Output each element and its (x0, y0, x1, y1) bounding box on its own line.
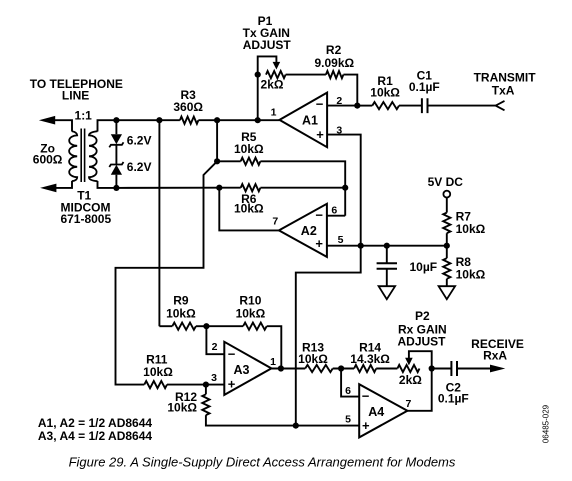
resistor R13 10kΩ (305, 365, 333, 372)
svg-text:LINE: LINE (62, 89, 89, 103)
label R14 (359, 340, 381, 354)
svg-text:7: 7 (272, 216, 278, 228)
wire: 10µF to ground (386, 269, 388, 286)
pin 3 label (A3) (211, 372, 217, 384)
label R8 (456, 255, 472, 269)
svg-text:5V DC: 5V DC (428, 175, 464, 189)
op-amp A1 (280, 93, 328, 148)
potentiometer P1 2kΩ (266, 71, 286, 78)
resistor R6 10kΩ (241, 184, 261, 191)
label RECEIVE (471, 337, 524, 351)
junction: R6 right node (342, 185, 348, 191)
svg-text:A3: A3 (234, 363, 250, 377)
svg-text:A1, A2 = 1/2 AD8644: A1, A2 = 1/2 AD8644 (38, 416, 153, 430)
wire: telephone line upper lead (55, 120, 73, 131)
A3 plus sign (228, 377, 236, 392)
label 360Ω (173, 100, 203, 114)
resistor R11 10kΩ (144, 381, 167, 388)
label TxA (492, 83, 515, 97)
svg-text:10kΩ: 10kΩ (143, 365, 173, 379)
wire: R9 left lead (159, 325, 172, 327)
wire: A1 pin2 stub (327, 105, 357, 107)
label RxA (483, 348, 507, 362)
resistor R8 10kΩ (443, 258, 450, 279)
transformer T1 secondary winding (89, 131, 98, 181)
svg-text:0.1µF: 0.1µF (438, 391, 469, 405)
label R3 (181, 88, 197, 102)
wire: node to R1 (357, 105, 372, 107)
svg-text:+: + (228, 377, 236, 392)
wire: top rail left segment (116, 119, 179, 121)
P2 wiper arrow (405, 358, 413, 366)
wire: R2 to A1 inverting node (343, 75, 357, 106)
label Rx GAIN (398, 323, 447, 337)
label 1:1 (75, 108, 93, 122)
label 10kΩ (R10) (236, 307, 266, 321)
junction: A3 pin3 node (203, 382, 209, 388)
svg-text:TxA: TxA (492, 83, 515, 97)
label 10kΩ (R7) (456, 222, 486, 236)
svg-text:1: 1 (270, 356, 276, 368)
wire: R11 to pin3 node (167, 384, 224, 386)
wire: A1 pin3 stub down to A2 pin5 node (327, 135, 361, 246)
label A1 (302, 113, 318, 127)
label TO TELEPHONE LINE (30, 77, 123, 103)
wire: A2 output to R6 left node (219, 188, 279, 231)
A4 plus sign (362, 418, 370, 433)
svg-text:2: 2 (212, 341, 218, 353)
svg-text:+: + (316, 127, 324, 142)
label A4 (368, 405, 384, 419)
capacitor C2 0.1µF (451, 361, 457, 376)
pin 2 label (336, 95, 342, 107)
svg-text:6: 6 (345, 385, 351, 397)
svg-text:+: + (315, 236, 323, 251)
label 10kΩ (R6) (234, 202, 264, 216)
svg-text:A3, A4 = 1/2 AD8644: A3, A4 = 1/2 AD8644 (38, 429, 153, 443)
capacitor C1 0.1µF (422, 98, 428, 113)
label A2 (301, 224, 317, 238)
label 10kΩ (R12) (167, 401, 197, 415)
wire: top rail to R9 (long vertical) (158, 120, 160, 326)
svg-text:671-8005: 671-8005 (60, 212, 111, 226)
A2 plus sign (315, 236, 323, 251)
label 671-8005 (60, 212, 111, 226)
svg-text:10kΩ: 10kΩ (236, 307, 266, 321)
junction: R6 left node (216, 185, 222, 191)
label T1 (77, 189, 91, 203)
junction: R9 tap on top rail (156, 117, 162, 123)
pin 3 label (336, 124, 342, 136)
TxA connector chevron (496, 101, 505, 110)
label R9 (173, 294, 189, 308)
wire: R5 left lead (217, 160, 241, 162)
svg-text:600Ω: 600Ω (33, 153, 63, 167)
junction: P1 left terminal (255, 72, 261, 78)
label C1 (417, 69, 433, 83)
junction: zener top on rail (113, 117, 119, 123)
wire: pin6 node down to A4 (341, 369, 359, 397)
wire: junction to R10 (206, 325, 243, 327)
label Zo 600Ω (33, 142, 63, 167)
label R5 (241, 130, 257, 144)
potentiometer P2 2kΩ (397, 365, 419, 372)
wire: R14 to P2 (376, 368, 397, 370)
svg-text:1: 1 (271, 107, 277, 119)
svg-text:5: 5 (338, 234, 344, 246)
svg-text:10kΩ: 10kΩ (456, 222, 486, 236)
resistor R12 10kΩ (202, 394, 209, 415)
label 10kΩ (R13) (298, 352, 328, 366)
svg-text:14.3kΩ: 14.3kΩ (350, 352, 390, 366)
label R11 (146, 353, 168, 367)
label TRANSMIT (474, 71, 537, 85)
wire: 5V to R7 (446, 198, 448, 213)
pin 6 label (A4) (345, 385, 351, 397)
label 9.09kΩ (314, 56, 354, 70)
junction: R13/R14/A4 pin6 node (338, 365, 344, 371)
junction: R5 left node (214, 158, 220, 164)
wire: R5 node diagonal jog to R11 (116, 161, 218, 384)
resistor R9 10kΩ (172, 323, 196, 330)
wire: between zeners (115, 145, 117, 165)
zener diode upper 6.2V (cathode down) (109, 134, 123, 147)
junction: pin5 / A1 pin3 node (358, 243, 364, 249)
resistor R2 9.09kΩ (326, 71, 344, 78)
A1 minus sign (316, 97, 324, 112)
wire: C2 to RxA arrow (457, 368, 493, 370)
wire: R10 right lead down to A3 output (267, 326, 282, 368)
svg-text:R10: R10 (239, 294, 261, 308)
label ADJUST (397, 334, 446, 348)
ground below 10µF (379, 286, 396, 299)
wire: top rail right segment (198, 119, 279, 121)
label R6 (241, 192, 257, 206)
wire: P1 to R2 (286, 74, 326, 76)
svg-text:−: − (362, 389, 370, 404)
junction: 10µF tap (384, 243, 390, 249)
junction: A3 output node (278, 365, 284, 371)
label P1 (258, 14, 273, 28)
svg-text:6.2V: 6.2V (127, 160, 152, 174)
svg-text:−: − (315, 207, 323, 222)
label P2 (415, 309, 430, 323)
pin 6 label (331, 205, 337, 217)
label ADJUST (243, 38, 292, 52)
label 10kΩ (R11) (143, 365, 173, 379)
svg-text:10kΩ: 10kΩ (234, 202, 264, 216)
svg-text:2kΩ: 2kΩ (261, 77, 284, 91)
pin 1 label (271, 107, 277, 119)
wire: zener branch top (115, 120, 117, 134)
wire: R5 right lead down (260, 161, 345, 215)
junction: A4 plus line tap (293, 423, 299, 429)
A4 minus sign (362, 389, 370, 404)
pin 5 label (A4) (345, 413, 351, 425)
label 0.1µF (C2) (438, 391, 469, 405)
resistor R10 10kΩ (243, 323, 267, 330)
label 10kΩ (R9) (166, 307, 196, 321)
A1 plus sign (316, 127, 324, 142)
label 10kΩ (R8) (456, 268, 486, 282)
label 0.1µF (C1) (409, 80, 440, 94)
label 6.2V (lower) (127, 160, 152, 174)
label 5V DC (428, 175, 464, 189)
label 6.2V (upper) (127, 134, 152, 148)
note A3 A4 (38, 429, 153, 443)
label R2 (326, 43, 342, 57)
svg-text:9.09kΩ: 9.09kΩ (314, 56, 354, 70)
svg-text:R2: R2 (326, 43, 342, 57)
note A1 A2 (38, 416, 153, 430)
resistor R3 360Ω (180, 117, 199, 124)
junction: zener bottom on rail (113, 185, 119, 191)
svg-text:−: − (228, 346, 236, 361)
label R7 (456, 210, 472, 224)
svg-text:10kΩ: 10kΩ (234, 142, 264, 156)
label R1 (377, 74, 393, 88)
junction: P1 tap / A1 output node (255, 117, 261, 123)
pin 2 label (A3) (212, 341, 218, 353)
capacitor 10µF (377, 263, 397, 269)
svg-text:Figure 29. A Single-Supply Dir: Figure 29. A Single-Supply Direct Access… (69, 455, 456, 470)
wire: C1 to TxA connector (428, 105, 496, 107)
zener diode lower 6.2V (cathode up) (109, 162, 123, 175)
svg-text:3: 3 (211, 372, 217, 384)
svg-text:A1: A1 (302, 113, 318, 127)
wire: P2 wiper tie (409, 351, 432, 368)
label R12 (175, 390, 197, 404)
wire: A2 pin6 stub (327, 215, 345, 217)
wire: P1 wiper tie (258, 56, 277, 74)
junction: R7/R8 divider node (444, 243, 450, 249)
label 2kΩ (261, 77, 284, 91)
wire: pin5 node down-jog to A4 plus line (296, 246, 361, 426)
transformer T1 core (81, 129, 84, 183)
wire: P1 left terminal to A1 output node (257, 75, 259, 121)
label A3 (234, 363, 250, 377)
svg-text:5: 5 (345, 413, 351, 425)
svg-text:−: − (316, 97, 324, 112)
ground below R8 (439, 286, 456, 299)
pin 7 label (A4) (405, 398, 411, 410)
resistor R14 14.3kΩ (354, 365, 376, 372)
svg-text:10kΩ: 10kΩ (298, 352, 328, 366)
resistor R7 10kΩ (443, 213, 450, 234)
label MIDCOM (61, 200, 111, 214)
watermark 06485-029 (541, 404, 550, 443)
pin 5 label (A2) (338, 234, 344, 246)
junction: P2 right node (429, 365, 435, 371)
wire: R13 to junction (333, 368, 354, 370)
wire: R6 right lead (260, 187, 345, 189)
svg-text:10kΩ: 10kΩ (456, 268, 486, 282)
resistor R5 10kΩ (241, 158, 261, 165)
svg-text:+: + (362, 418, 370, 433)
wire: A3 output stub (271, 368, 305, 370)
arrow to telephone line (lower, pointing left) (40, 184, 56, 193)
5V DC terminal circle (443, 191, 450, 198)
svg-text:R9: R9 (173, 294, 189, 308)
svg-text:360Ω: 360Ω (173, 100, 203, 114)
label 2kΩ (P2) (399, 373, 422, 387)
label 10µF (410, 260, 438, 274)
wire: telephone line lower lead (55, 181, 73, 188)
wire: A2 pin5 stub (327, 245, 447, 247)
label R10 (239, 294, 261, 308)
junction: R5 tap on top rail (214, 117, 220, 123)
svg-text:2kΩ: 2kΩ (399, 373, 422, 387)
figure caption (69, 455, 456, 470)
svg-text:6.2V: 6.2V (127, 134, 152, 148)
svg-text:ADJUST: ADJUST (397, 334, 446, 348)
wire: secondary top lead (98, 120, 117, 131)
pin 1 label (A3) (270, 356, 276, 368)
wire: R8 to ground (446, 279, 448, 286)
P1 wiper arrow (273, 62, 281, 70)
wire: node to R8 (446, 246, 448, 259)
wire: secondary bottom lead (98, 181, 117, 188)
wire: R5 tap down (216, 120, 218, 161)
junction: A1 inverting node (354, 103, 360, 109)
op-amp A4 (359, 384, 407, 437)
wire: zener branch bottom (115, 175, 117, 188)
transformer T1 primary winding (69, 131, 77, 181)
svg-text:06485-029: 06485-029 (541, 404, 550, 443)
wire: A4 output up to P2 node (407, 369, 431, 411)
label 10kΩ (R1) (370, 86, 400, 100)
junction: R9/R10/A3 pin2 node (203, 323, 209, 329)
label R13 (302, 340, 324, 354)
wire: R12 bottom to A4 plus line (206, 415, 359, 426)
RxA arrow (pointing right) (490, 365, 505, 373)
svg-text:A4: A4 (368, 405, 384, 419)
wire: bottom rail (R6 line) (116, 187, 240, 189)
arrow to telephone line (upper, pointing left) (39, 116, 55, 125)
label 10kΩ (R5) (234, 142, 264, 156)
svg-text:6: 6 (331, 205, 337, 217)
A3 minus sign (228, 346, 236, 361)
svg-text:P2: P2 (415, 309, 430, 323)
wire: R9 to junction (196, 325, 207, 327)
wire: pin2 node down to A3 (206, 326, 224, 354)
pin 7 label (272, 216, 278, 228)
svg-text:10kΩ: 10kΩ (166, 307, 196, 321)
wire: R1 to C1 (399, 105, 422, 107)
label 14.3kΩ (350, 352, 390, 366)
wire: R7 to node (446, 233, 448, 246)
A2 minus sign (315, 207, 323, 222)
op-amp A3 (224, 342, 271, 395)
svg-text:0.1µF: 0.1µF (409, 80, 440, 94)
svg-text:ADJUST: ADJUST (243, 38, 292, 52)
op-amp A2 (279, 204, 327, 257)
svg-text:10µF: 10µF (410, 260, 438, 274)
svg-text:7: 7 (405, 398, 411, 410)
wire: P2 node to C2 (432, 368, 452, 370)
resistor R1 10kΩ (372, 102, 399, 109)
svg-text:10kΩ: 10kΩ (167, 401, 197, 415)
wire: pin3 node to R12 (205, 385, 207, 395)
label C2 (446, 381, 462, 395)
svg-text:10kΩ: 10kΩ (370, 86, 400, 100)
svg-text:1:1: 1:1 (75, 108, 93, 122)
label Tx GAIN (243, 26, 290, 40)
svg-text:RxA: RxA (483, 348, 507, 362)
wire: node to 10µF (386, 246, 388, 264)
